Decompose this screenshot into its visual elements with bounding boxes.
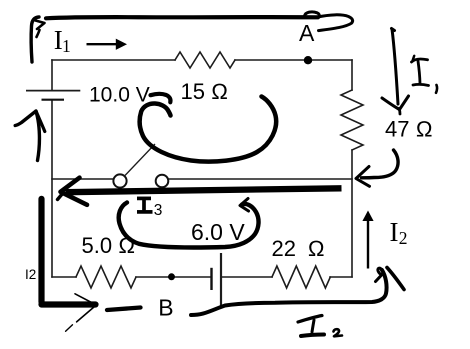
svg-text:6.0 V: 6.0 V xyxy=(191,219,245,245)
svg-text:Ω: Ω xyxy=(416,116,433,141)
svg-text:3: 3 xyxy=(154,202,163,219)
svg-text:I2: I2 xyxy=(25,267,36,282)
svg-text:10.0 V: 10.0 V xyxy=(89,84,150,107)
svg-text:2: 2 xyxy=(399,228,408,248)
svg-text:Ω: Ω xyxy=(308,236,325,261)
svg-text:A: A xyxy=(299,20,315,46)
svg-text:15 Ω: 15 Ω xyxy=(181,79,228,104)
svg-text:B: B xyxy=(158,295,173,321)
svg-text:1: 1 xyxy=(62,36,71,56)
svg-text:47: 47 xyxy=(385,116,409,141)
svg-text:22: 22 xyxy=(272,236,296,261)
svg-text:I: I xyxy=(390,217,399,247)
